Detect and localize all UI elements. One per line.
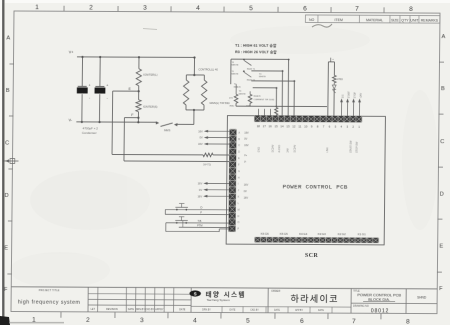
svg-text:4: 4 bbox=[196, 5, 200, 12]
wires 16V 0V 16V upper bbox=[198, 129, 230, 146]
node F bbox=[131, 113, 139, 119]
svg-text:1: 1 bbox=[32, 316, 36, 323]
svg-text:DATE: DATE bbox=[128, 308, 135, 311]
zone ticks bottom bbox=[61, 312, 381, 319]
zone numbers bottom bbox=[32, 316, 410, 325]
node V+ label bbox=[69, 50, 75, 54]
svg-text:V-: V- bbox=[244, 161, 247, 164]
svg-text:B: B bbox=[6, 88, 10, 94]
svg-text:K3 G3: K3 G3 bbox=[318, 232, 326, 236]
svg-text:D: D bbox=[5, 193, 9, 199]
title block outline bbox=[11, 287, 437, 314]
svg-text:15: 15 bbox=[274, 124, 278, 128]
scan mottling bbox=[10, 26, 438, 288]
project title cell bbox=[18, 289, 81, 306]
scan artifact marks bbox=[143, 24, 332, 30]
svg-text:B: B bbox=[441, 86, 445, 92]
svg-text:16V: 16V bbox=[244, 131, 249, 134]
pin letters CN2 bbox=[237, 132, 240, 231]
svg-text:0V: 0V bbox=[244, 190, 247, 193]
svg-text:08012: 08012 bbox=[371, 308, 389, 314]
svg-text:CKD.BY: CKD.BY bbox=[145, 308, 154, 311]
capacitor C2 4700uF bbox=[94, 56, 109, 123]
svg-text:APP.BY: APP.BY bbox=[155, 308, 164, 311]
wire T2 row 1 bbox=[231, 58, 290, 84]
resistor pair CONTROL / MAIN bbox=[183, 56, 207, 111]
svg-text:M: M bbox=[238, 209, 240, 211]
label T4 WHITE bbox=[239, 91, 247, 96]
svg-text:14: 14 bbox=[280, 124, 284, 128]
svg-text:BLOCK DIA.: BLOCK DIA. bbox=[368, 297, 390, 302]
svg-text:E: E bbox=[439, 243, 443, 249]
svg-text:DRN.BY: DRN.BY bbox=[202, 309, 211, 311]
svg-text:APP.BY: APP.BY bbox=[295, 309, 303, 312]
svg-text:+24V: +24V bbox=[361, 92, 363, 98]
title block signature row bbox=[191, 306, 351, 313]
label SCR bbox=[305, 253, 319, 259]
svg-text:DATE: DATE bbox=[230, 308, 236, 311]
wire node E to PCB pin V+ bbox=[112, 91, 230, 157]
switch RSW T2 bbox=[243, 70, 256, 81]
svg-text:ORDER: ORDER bbox=[271, 290, 280, 293]
svg-text:K4 G4: K4 G4 bbox=[299, 232, 307, 236]
svg-text:START: START bbox=[348, 90, 351, 98]
scan corner blob bbox=[0, 316, 10, 325]
svg-text:16V: 16V bbox=[198, 142, 203, 146]
wire horizontal bus to loop bbox=[276, 105, 327, 107]
zone numbers top bbox=[35, 4, 413, 13]
svg-text:470Ω: 470Ω bbox=[337, 78, 343, 81]
label W470 bbox=[203, 163, 211, 166]
svg-text:5: 5 bbox=[246, 317, 250, 324]
svg-text:POWER CONTROL PCB: POWER CONTROL PCB bbox=[283, 183, 348, 190]
svg-text:MMS: MMS bbox=[164, 128, 171, 132]
connector top strip CN1 bbox=[254, 116, 362, 122]
svg-text:T1 : HIGH 61 VOLT 승압: T1 : HIGH 61 VOLT 승압 bbox=[235, 43, 277, 48]
svg-text:24V: 24V bbox=[287, 148, 290, 153]
label MAIN T/R bbox=[210, 101, 230, 105]
svg-text:NO: NO bbox=[309, 18, 315, 22]
svg-text:T.B: T.B bbox=[198, 219, 202, 223]
wire switch to resistor pair bbox=[177, 110, 194, 125]
svg-text:8: 8 bbox=[406, 318, 410, 325]
svg-text:하라세이코: 하라세이코 bbox=[290, 294, 338, 304]
svg-text:16V: 16V bbox=[244, 184, 249, 187]
resistor R5 above pin15 bbox=[275, 107, 278, 116]
wire drop to pin 14 bbox=[281, 71, 283, 116]
svg-text:PTM: PTM bbox=[197, 224, 203, 228]
svg-text:16V: 16V bbox=[197, 194, 202, 198]
centering mark left bbox=[3, 159, 18, 164]
svg-text:DC24V: DC24V bbox=[271, 144, 274, 152]
connector bottom strip CN3 bbox=[255, 237, 379, 242]
scanner edge strip bbox=[2, 0, 4, 325]
PCB block outline bbox=[226, 116, 385, 245]
svg-text:WHITE: WHITE bbox=[239, 93, 247, 95]
svg-text:K6 G6: K6 G6 bbox=[261, 232, 269, 236]
diode D1 bbox=[332, 83, 336, 117]
svg-text:G: G bbox=[238, 171, 240, 173]
svg-text:STOP SW: STOP SW bbox=[356, 141, 359, 153]
svg-text:18: 18 bbox=[257, 124, 261, 128]
wires 16V 0V 16V lower bbox=[197, 181, 229, 198]
svg-text:10: 10 bbox=[304, 124, 308, 128]
order cell bbox=[271, 290, 339, 305]
svg-text:IGNITER(L): IGNITER(L) bbox=[143, 73, 157, 77]
svg-text:MAIN(L) T/R 50Ω: MAIN(L) T/R 50Ω bbox=[210, 101, 230, 105]
gate labels K G bbox=[261, 232, 366, 237]
svg-text:E: E bbox=[4, 245, 8, 251]
label capacitors value bbox=[82, 126, 98, 134]
svg-text:PROJECT TITLE: PROJECT TITLE bbox=[39, 289, 60, 292]
svg-text:0V: 0V bbox=[199, 136, 202, 140]
node V- label bbox=[69, 118, 73, 122]
svg-text:DATE: DATE bbox=[274, 309, 280, 312]
svg-text:TaeYang System: TaeYang System bbox=[207, 298, 231, 302]
svg-text:+: + bbox=[88, 83, 90, 87]
svg-text:Condenser: Condenser bbox=[82, 131, 97, 135]
label T1 WHITE bbox=[231, 71, 239, 76]
svg-text:V+: V+ bbox=[69, 50, 75, 54]
svg-text:0V: 0V bbox=[244, 138, 247, 141]
svg-text:D: D bbox=[200, 206, 202, 210]
svg-text:LET: LET bbox=[91, 308, 96, 311]
svg-text:DATE: DATE bbox=[179, 308, 186, 311]
resistor R2 IGNITER(S) bbox=[136, 100, 158, 124]
drawing title cell bbox=[351, 290, 406, 315]
wire tap row 4 bbox=[253, 87, 278, 89]
svg-text:V+: V+ bbox=[244, 154, 248, 157]
capacitor C1 4700uF bbox=[77, 56, 92, 123]
resistor R4 current T/R bbox=[246, 91, 274, 108]
svg-text:REVISION: REVISION bbox=[106, 308, 118, 311]
svg-text:16V: 16V bbox=[198, 129, 203, 133]
svg-text:+: + bbox=[106, 84, 108, 88]
svg-text:7: 7 bbox=[355, 6, 359, 13]
svg-text:DRAWING NO: DRAWING NO bbox=[353, 305, 369, 308]
wire stubs pins 16-18 bbox=[259, 109, 271, 117]
switch MMS bbox=[156, 121, 178, 132]
zone ticks left bbox=[7, 64, 14, 274]
svg-text:A: A bbox=[441, 34, 445, 40]
svg-text:0V: 0V bbox=[199, 188, 202, 192]
svg-text:STOP: STOP bbox=[355, 92, 357, 99]
svg-text:A GND: A GND bbox=[278, 145, 281, 153]
svg-text:5: 5 bbox=[249, 5, 253, 12]
svg-text:DATE: DATE bbox=[318, 309, 324, 312]
annotation transformer voltages bbox=[235, 43, 277, 55]
svg-text:2: 2 bbox=[86, 317, 90, 324]
svg-text:IGNITER(S): IGNITER(S) bbox=[143, 105, 158, 109]
svg-text:16V: 16V bbox=[244, 144, 249, 147]
switch RSW T1 bbox=[243, 59, 256, 71]
label T2 WHITE bbox=[231, 62, 239, 67]
svg-text:RED: RED bbox=[230, 106, 235, 108]
wire drop to pin 12 bbox=[293, 81, 295, 116]
svg-text:CKD.BY: CKD.BY bbox=[250, 310, 259, 312]
svg-text:K5 G5: K5 G5 bbox=[280, 232, 288, 236]
svg-text:REMARKS: REMARKS bbox=[421, 18, 439, 22]
svg-text:QTY: QTY bbox=[401, 18, 409, 22]
push button circuit TB/PTM bbox=[166, 217, 229, 232]
label CONTROL(L) bbox=[198, 68, 218, 72]
wire V+ rail bbox=[77, 56, 195, 59]
svg-text:WHITE: WHITE bbox=[259, 76, 267, 78]
svg-text:SCR: SCR bbox=[305, 253, 319, 259]
wire sense loop pin6 bbox=[328, 58, 335, 117]
resistor R1 IGNITER(L) bbox=[136, 56, 158, 86]
svg-text:16V: 16V bbox=[198, 181, 203, 185]
svg-text:17: 17 bbox=[263, 124, 267, 128]
zone ticks top bbox=[64, 6, 384, 13]
company logo cell bbox=[189, 289, 246, 302]
pin numbers CN1 bbox=[257, 124, 361, 129]
svg-text:D: D bbox=[440, 191, 444, 197]
wire tap row 2 bbox=[251, 70, 283, 72]
zone ticks right bbox=[437, 62, 444, 272]
pin labels CN2 right bbox=[244, 131, 249, 199]
svg-text:WHITE: WHITE bbox=[231, 74, 239, 76]
label T2 BLACK bbox=[234, 84, 242, 89]
svg-text:2: 2 bbox=[89, 5, 93, 12]
svg-text:GND: GND bbox=[258, 147, 261, 153]
wire tap row 3 bbox=[251, 80, 295, 82]
wire drop row4 bbox=[275, 88, 277, 107]
svg-text:11: 11 bbox=[298, 124, 301, 128]
label T3 WHITE bbox=[259, 74, 267, 79]
svg-text:O: O bbox=[238, 222, 240, 224]
svg-text:DRN.BY: DRN.BY bbox=[136, 308, 145, 311]
rotated labels input pins bbox=[343, 90, 363, 98]
svg-text:16: 16 bbox=[269, 124, 273, 128]
svg-text:A: A bbox=[6, 35, 10, 41]
svg-text:7: 7 bbox=[352, 318, 356, 325]
approval cell bbox=[406, 295, 437, 303]
svg-text:6: 6 bbox=[300, 318, 304, 325]
svg-text:MATERIAL: MATERIAL bbox=[366, 18, 383, 22]
svg-text:F: F bbox=[4, 287, 8, 293]
svg-text:S/S: S/S bbox=[343, 94, 345, 98]
revision table bbox=[88, 287, 191, 312]
svg-text:K1 G1: K1 G1 bbox=[358, 232, 366, 236]
svg-text:WHITE: WHITE bbox=[231, 65, 239, 67]
svg-text:16V: 16V bbox=[244, 196, 249, 199]
wire sub-circuit bottom bus bbox=[236, 103, 277, 107]
svg-text:C: C bbox=[5, 140, 9, 146]
svg-text:SIZE: SIZE bbox=[391, 18, 399, 22]
svg-text:S: S bbox=[194, 291, 197, 296]
input arrows pins 1-4 bbox=[340, 98, 361, 116]
svg-text:12: 12 bbox=[292, 124, 296, 128]
svg-text:4: 4 bbox=[193, 317, 197, 324]
svg-text:UNIT: UNIT bbox=[410, 18, 419, 22]
parts list table bbox=[305, 15, 440, 23]
resistor R3 RED bbox=[229, 84, 238, 108]
wire V- rail bbox=[76, 121, 157, 123]
svg-text:LINE: LINE bbox=[326, 147, 329, 153]
svg-text:C: C bbox=[440, 139, 444, 145]
svg-text:BLACK: BLACK bbox=[234, 85, 242, 88]
svg-text:ITEM: ITEM bbox=[334, 18, 342, 22]
push button circuit D/F bbox=[165, 203, 229, 214]
wire node F to PCB pin V- bbox=[124, 118, 230, 162]
node E bbox=[128, 86, 139, 100]
svg-text:high frequency system: high frequency system bbox=[18, 300, 81, 306]
svg-text:8: 8 bbox=[409, 6, 413, 13]
svg-text:BLACK: BLACK bbox=[254, 95, 262, 98]
connector left strip CN2 bbox=[229, 129, 237, 232]
svg-text:CONTROL(L) 40: CONTROL(L) 40 bbox=[198, 68, 218, 72]
svg-text:DC24V: DC24V bbox=[294, 144, 297, 152]
svg-text:R3 : HIGH 26 VOLT 승압: R3 : HIGH 26 VOLT 승압 bbox=[235, 49, 277, 54]
label POWER CONTROL PCB bbox=[283, 183, 348, 190]
svg-text:SHND: SHND bbox=[417, 296, 427, 300]
svg-text:(W470): (W470) bbox=[203, 163, 211, 166]
zone letters left bbox=[4, 35, 11, 293]
zone letters right bbox=[439, 34, 446, 292]
svg-text:3: 3 bbox=[140, 317, 144, 324]
wire drop to pin 13 bbox=[287, 59, 290, 116]
rotated pin labels inside top bbox=[258, 139, 359, 152]
svg-text:START SW: START SW bbox=[350, 140, 353, 153]
svg-text:1: 1 bbox=[35, 4, 39, 11]
svg-text:CURRENT T/R 100Ω: CURRENT T/R 100Ω bbox=[254, 99, 275, 101]
svg-text:6: 6 bbox=[303, 6, 307, 13]
svg-text:K2 G2: K2 G2 bbox=[338, 232, 346, 236]
svg-text:3: 3 bbox=[143, 5, 147, 12]
svg-text:J: J bbox=[238, 190, 239, 192]
svg-text:F: F bbox=[439, 286, 443, 292]
resistor R6 470 ohm bbox=[332, 62, 343, 83]
svg-text:13: 13 bbox=[286, 124, 290, 128]
